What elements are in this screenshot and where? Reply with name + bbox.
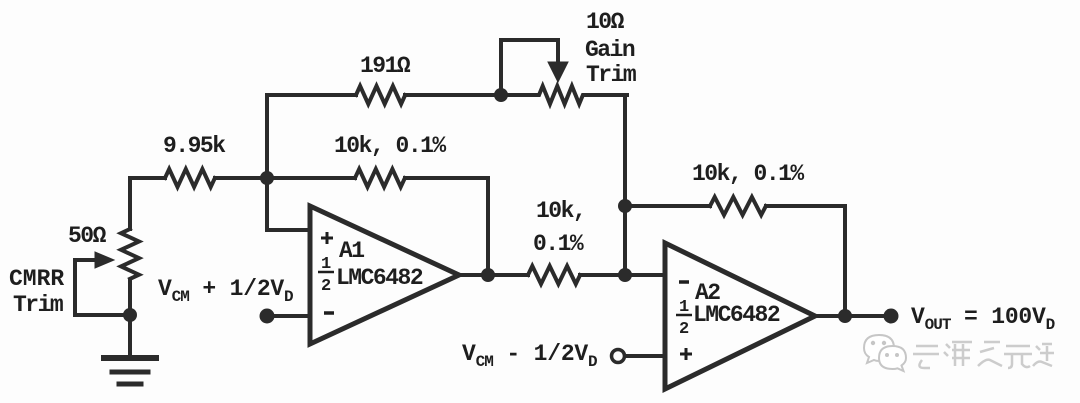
op-amp A2 plus input symbol xyxy=(680,348,692,360)
potentiometer 50-ohm (vertical) xyxy=(121,229,139,279)
svg-text:10k,: 10k, xyxy=(536,198,585,224)
svg-text:10k, 0.1%: 10k, 0.1% xyxy=(692,161,804,187)
svg-text:A1: A1 xyxy=(339,238,364,264)
resistor 9.95k xyxy=(165,169,215,187)
svg-text:LMC6482: LMC6482 xyxy=(693,302,780,328)
potentiometer 10-ohm gain trim xyxy=(501,86,627,104)
op-amp A1 plus input symbol xyxy=(321,232,333,244)
wire: node A up to 191-ohm row xyxy=(265,95,269,178)
fraction 1/2 (A1) xyxy=(318,255,334,296)
svg-text:191Ω: 191Ω xyxy=(360,53,411,79)
watermark: wechat logo bubbles xyxy=(864,335,906,371)
resistor 10k 0.1% (A2 feedback) xyxy=(710,197,766,215)
svg-text:VOUT = 100VD: VOUT = 100VD xyxy=(911,304,1055,334)
wire: left branch down to 50-ohm pot xyxy=(128,178,132,229)
svg-text:Trim: Trim xyxy=(13,292,63,318)
svg-text:2: 2 xyxy=(321,277,331,296)
resistor 191 ohm xyxy=(356,86,405,104)
node: A1 output xyxy=(481,268,495,282)
wire: A2 plus input from Vcm- terminal xyxy=(626,354,665,358)
wire: 50-ohm bottom to ground xyxy=(128,280,132,357)
wire: gain-trim wiper loop xyxy=(501,40,558,95)
resistor 10k 0.1% (A1 feedback) xyxy=(355,169,405,187)
arrowhead: CMRR trim wiper (points right at pot) xyxy=(95,252,114,268)
terminal: Vcm-1/2Vd input (open circle) xyxy=(612,350,625,363)
wire: node A to A1 plus input xyxy=(267,178,310,230)
fraction 1/2 (A2) xyxy=(676,298,692,339)
svg-text:VCM + 1/2VD: VCM + 1/2VD xyxy=(158,276,293,306)
svg-text:Gain: Gain xyxy=(585,37,635,63)
wire: 9.95k row, left corner to node A xyxy=(130,176,267,180)
op-amp A2 triangle xyxy=(665,243,815,389)
op-amp A1 minus input symbol xyxy=(324,311,334,315)
ground xyxy=(104,355,156,361)
arrowhead: gain trim wiper (points down at pot) xyxy=(548,62,568,82)
wire: 191-ohm row xyxy=(267,93,501,97)
watermark: text 'yun shen zhi wu ji' (stylised strokes) xyxy=(913,342,1054,368)
svg-text:50Ω: 50Ω xyxy=(68,223,107,249)
node: A2 minus input junction xyxy=(618,268,632,282)
wire: A2 output to Vout terminal xyxy=(815,314,891,318)
wire: A2 feedback drop to output xyxy=(843,206,847,316)
node: A2 output junction xyxy=(838,309,852,323)
op-amp A2 minus input symbol xyxy=(679,280,689,284)
svg-text:9.95k: 9.95k xyxy=(163,133,226,159)
svg-text:LMC6482: LMC6482 xyxy=(336,265,423,291)
terminal: Vcm+1/2Vd input xyxy=(260,309,275,324)
svg-text:VCM - 1/2VD: VCM - 1/2VD xyxy=(462,341,597,371)
svg-text:2: 2 xyxy=(679,320,689,339)
svg-text:10Ω: 10Ω xyxy=(586,9,625,35)
wire: A1 output row to A2 minus input xyxy=(459,273,665,277)
node: A2 feedback junction xyxy=(618,199,632,213)
node: 50-ohm bottom junction xyxy=(123,308,137,322)
resistor 10k 0.1% (interstage) xyxy=(528,266,580,284)
terminal: Vout xyxy=(884,309,899,324)
svg-text:10k, 0.1%: 10k, 0.1% xyxy=(334,133,446,159)
wire: CMRR trim loop xyxy=(75,260,130,315)
wire: A1 feedback drop to output node xyxy=(486,178,490,275)
op-amp A1 triangle xyxy=(310,206,459,344)
node: junction at 9.95k / 191 / 10k / A1+ xyxy=(260,171,274,185)
wire: A1 feedback top run xyxy=(267,176,488,180)
wire: A1 minus input from Vcm+ terminal xyxy=(267,314,310,318)
svg-text:Trim: Trim xyxy=(586,62,636,88)
wire: A2 feedback top run xyxy=(625,204,845,208)
node: gain trim left xyxy=(494,88,508,102)
svg-text:CMRR: CMRR xyxy=(9,266,64,292)
svg-text:0.1%: 0.1% xyxy=(533,231,584,257)
wire: gain-trim right drop to A2 input column xyxy=(623,95,627,275)
